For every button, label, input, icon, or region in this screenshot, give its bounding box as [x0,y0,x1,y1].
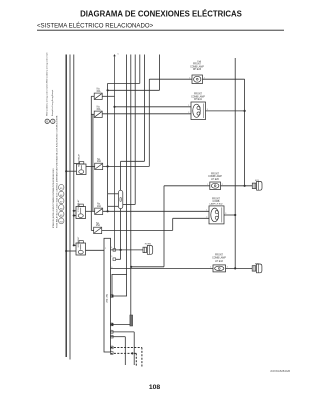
wire bus m3 [126,55,128,275]
junction lamp B out [244,110,246,112]
wire capsule bridge top [108,193,119,195]
wire relay1 pin1 [74,163,80,165]
svg-text:3: 3 [111,335,112,337]
wire capsule feed vertical [120,161,122,190]
svg-text:3: 3 [225,213,226,215]
wire lamp A feed [149,78,192,80]
svg-text:1: 1 [111,351,112,353]
ground bolt E21 [252,181,262,190]
wire fuse1 left [91,95,94,97]
svg-text:8: 8 [111,323,112,325]
junction box pin g [111,323,113,325]
svg-text:10A: 10A [97,160,102,163]
wire fuse feed vertical [107,83,109,211]
lamp E headlamp LH [209,206,224,224]
svg-text:COMB LAMP: COMB LAMP [191,95,205,98]
wire row C [164,185,210,187]
svg-text:RH E11: RH E11 [194,99,203,101]
wire top feed right [159,55,161,91]
junction lamp B feed [113,106,115,108]
grommet capsule [118,190,122,208]
wire relay1 pin2 [66,170,76,172]
svg-text:2: 2 [105,248,106,250]
pin box P1 [113,249,116,252]
header rule [37,29,284,31]
wire bus m6 [144,55,146,162]
wire capsule bridge bottom [108,205,119,207]
svg-text:<SISTEMA ELÉCTRICO RELACIONADO: <SISTEMA ELÉCTRICO RELACIONADO> [37,23,154,30]
lamp D [213,265,226,272]
svg-text:E9: E9 [60,215,62,217]
junction E row feed [107,210,109,212]
svg-text:FRONT: FRONT [212,198,221,200]
lamp B headlamp RH [191,102,206,120]
svg-text:2: 2 [111,346,112,348]
wire relay1 out [86,165,95,167]
wire dashed 1 [111,347,142,349]
pin box k [111,295,114,298]
svg-text:LH E43: LH E43 [215,261,223,263]
wire horn row right [111,249,144,251]
wire fuse left drop 2 [92,114,94,211]
wire pin drop 2 [111,336,126,338]
svg-text:E6: E6 [60,195,62,197]
svg-text:15A: 15A [96,108,101,111]
svg-text:FOG RELAY: FOG RELAY [77,199,80,211]
wire lamp B out [206,110,245,112]
svg-text:E8: E8 [60,208,62,210]
svg-text:LAMP LH E42: LAMP LH E42 [209,203,223,206]
top connector marker [113,54,116,56]
ground bolt horn [143,246,153,255]
wire relay3 pin1 [74,244,76,246]
svg-text:4: 4 [111,247,112,249]
svg-text:COMB LAMP: COMB LAMP [208,175,222,178]
svg-text:With headlamp aiming control s: With headlamp aiming control switch With… [46,52,49,116]
connector code oval E7 [59,198,64,204]
svg-text:HORN RELAY: HORN RELAY [78,153,81,167]
svg-text:7: 7 [111,294,112,296]
junction relay1 feed [65,170,67,172]
svg-text:3: 3 [207,109,208,111]
junction relay3 feed [65,250,67,252]
svg-text:B: B [46,120,48,123]
svg-text:5: 5 [118,54,119,56]
svg-text:15A: 15A [96,90,101,93]
wire left bus 2 [69,55,71,360]
lamp C front combination lamp LH [210,182,221,190]
svg-text:DIAGRAMA DE CONEXIONES ELÉCTRI: DIAGRAMA DE CONEXIONES ELÉCTRICAS [80,10,242,19]
svg-text:15A: 15A [197,60,201,63]
pin box bottom 2 [111,335,114,338]
pin box g [111,323,114,326]
wire relay3 feed [66,250,76,252]
svg-text:JCKWA5284GB: JCKWA5284GB [270,369,290,373]
connector code oval E5 [59,185,64,191]
wire bus m5 [134,55,136,205]
junction row D [234,267,236,269]
svg-text:S: S [52,120,54,123]
connector code oval E6 [59,191,64,197]
pin box P2 [113,258,116,261]
svg-text:LH E26: LH E26 [211,179,219,181]
connector code oval E8 [59,205,64,211]
wire dashed 2 [111,352,137,354]
svg-text:COMB LAMP: COMB LAMP [212,257,226,260]
junction dashed [131,352,133,354]
svg-text:1: 1 [188,105,189,107]
relay HORN RELAY [77,153,87,174]
svg-text:FRONT: FRONT [211,173,220,175]
wire E row upper [103,210,209,212]
fuse 10A [95,159,103,170]
wire row D right [226,267,253,269]
wire fuse1 out step [103,95,115,97]
svg-text:1: 1 [207,184,208,186]
svg-text:COMB LAMP: COMB LAMP [190,65,204,68]
svg-text:Except for Hong Kong Except: Except for Hong Kong Except [51,89,54,116]
svg-text:FRONT: FRONT [194,94,203,96]
fuse 15A [94,89,102,100]
wire E row lower step [102,229,173,231]
wire fuse2 left [91,113,94,115]
wire ground turn [131,266,164,268]
shield mark [130,315,133,326]
wire capsule down to horn [120,209,122,250]
lamp A front combination lamp RH [192,75,203,84]
svg-text:2: 2 [206,217,207,219]
legend symbol circle B [45,119,49,123]
fuse 15A [94,223,102,234]
svg-text:10A: 10A [97,205,102,208]
svg-text:1: 1 [189,77,190,79]
pin box bottom 3 [111,346,114,349]
relay FOG RELAY [76,199,86,218]
svg-text:2: 2 [188,112,189,114]
svg-text:108: 108 [149,384,161,391]
wire horn row [103,165,149,167]
fuse 10A [95,204,103,215]
wire relay2 pin2 [74,215,76,217]
wire row D [111,267,214,269]
svg-text:HORN RLY: HORN RLY [78,236,80,247]
ground bolt E22 [252,264,262,273]
wire fuse2 out to lamp B [103,113,192,115]
wire pin drop 1 [111,331,135,333]
wire relay2 pin1 [74,210,76,212]
wire right drop 2 [234,58,236,268]
svg-text:2: 2 [227,267,228,269]
wire left bus 3 [73,55,75,246]
junction relay3 pin1 [73,244,75,246]
svg-text:FUSE RELAY BLOCK JUNCTION BOX: FUSE RELAY BLOCK JUNCTION BOX CONTROL DI… [55,115,58,228]
junction horn pin [120,249,122,251]
wire ground riser C [163,186,165,267]
svg-text:2: 2 [222,184,223,186]
pin box bottom 1 [111,331,114,334]
junction ground row 1 [244,185,246,187]
svg-text:3: 3 [111,256,112,258]
wire capsule feed horizontal [121,160,145,162]
wire lamp A riser [148,79,150,166]
svg-text:FRONT: FRONT [215,254,224,256]
wire top feed horizontal [108,89,160,91]
svg-text:(J/B) (J/B): (J/B) (J/B) [107,294,109,303]
connector code oval E10 [59,218,64,224]
joint connector box [104,238,111,352]
wire lamp feed drop [114,55,116,249]
wire right drop 1 [244,79,246,186]
svg-text:E10: E10 [60,222,63,224]
connector code oval E9 [59,211,64,217]
wire relay2 out [86,210,93,212]
junction ground turn [130,266,132,268]
legend symbol circle S [51,119,55,123]
wire relay3 out to block [86,249,105,251]
relay HORN RLY [76,236,86,255]
junction lamp E out [234,214,236,216]
pin box bottom 4 [111,352,114,355]
svg-text:1: 1 [210,267,211,269]
junction box K pin [111,295,113,297]
inner box K [112,274,127,296]
svg-text:6: 6 [111,267,112,269]
svg-text:5: 5 [111,330,112,332]
wire lamp E out [224,214,235,216]
fuse 15A [94,107,102,118]
wire fuse left drop 1 [90,96,92,230]
svg-text:RH E26: RH E26 [193,69,202,71]
svg-text:IPDM E/R (INTELLIGENT POWER DI: IPDM E/R (INTELLIGENT POWER DISTRIBUTION… [53,168,55,228]
svg-text:1: 1 [206,210,207,212]
svg-text:E7: E7 [60,202,62,204]
svg-text:15A: 15A [96,224,101,227]
svg-text:E5: E5 [60,188,62,190]
wire row C right [221,185,253,187]
wire left bus 1 [65,55,67,358]
wire lamp A to right [203,78,245,80]
junction fuse1 out [107,89,109,91]
svg-text:FRONT: FRONT [193,64,202,66]
wire bus m4 [130,55,132,325]
wire feed A corner [139,55,141,84]
junction horn row [107,165,109,167]
svg-text:2: 2 [204,77,205,79]
